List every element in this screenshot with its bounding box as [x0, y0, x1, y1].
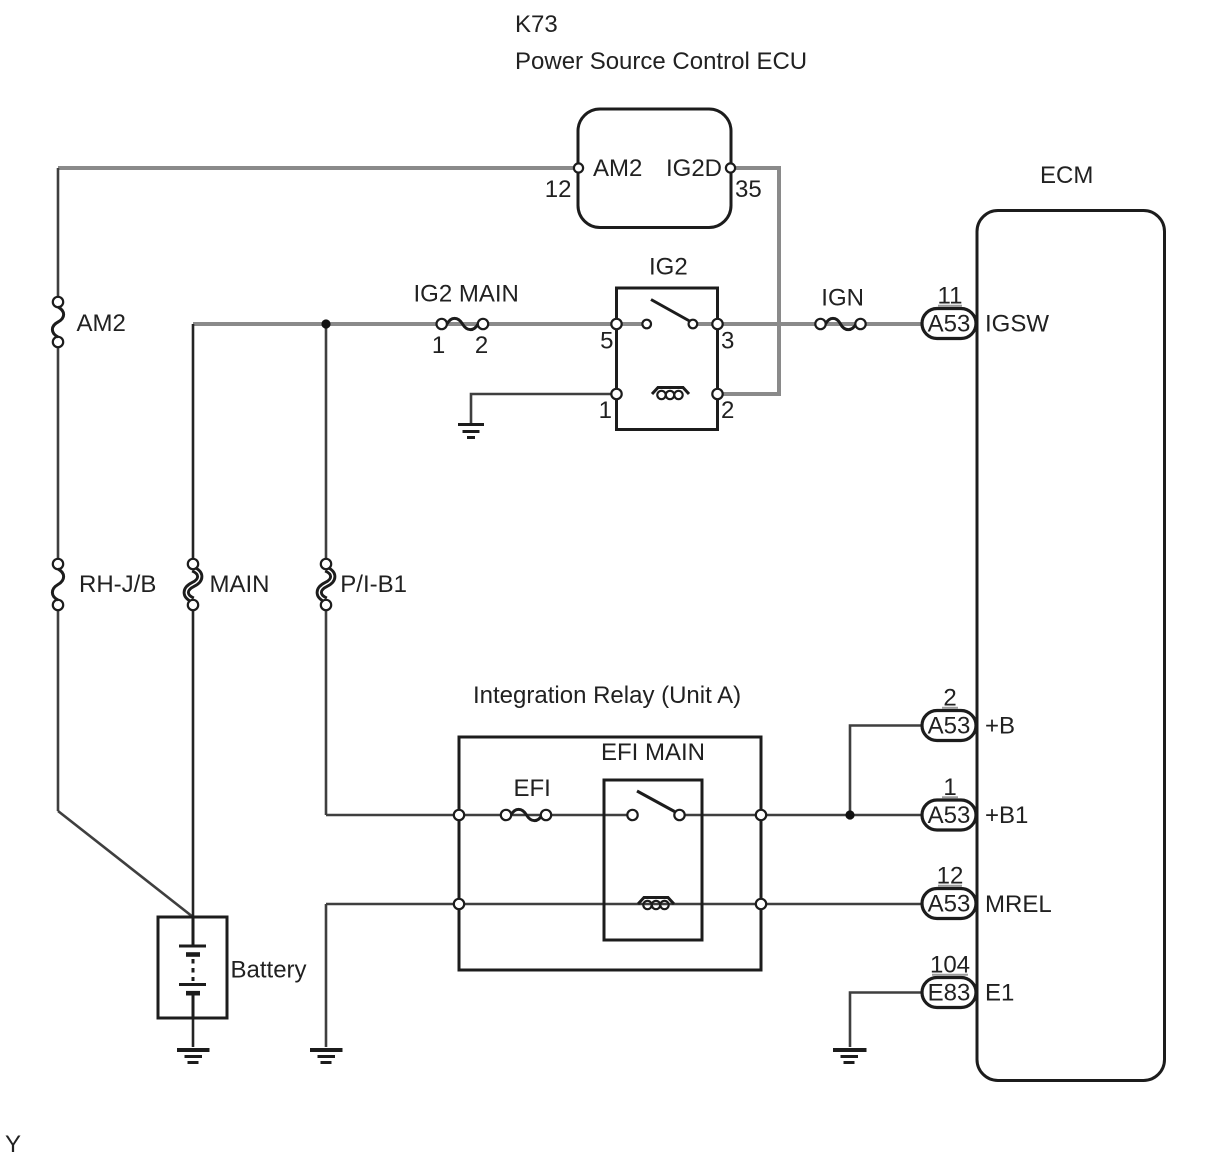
fuse EFI symbol — [511, 809, 542, 820]
svg-text:A53: A53 — [928, 713, 971, 740]
terminal circle integration relay left lower — [454, 899, 464, 909]
svg-text:Y: Y — [5, 1131, 21, 1156]
battery box — [158, 917, 227, 1018]
battery dashed middle — [192, 959, 195, 981]
svg-text:IG2D: IG2D — [666, 155, 722, 182]
svg-text:E1: E1 — [985, 980, 1014, 1007]
switch blade of IG2 relay — [651, 300, 690, 322]
wire P/I-B1 branch vertical upper — [325, 324, 328, 559]
svg-text:E83: E83 — [928, 980, 971, 1007]
svg-text:5: 5 — [600, 328, 613, 355]
fuse AM2 symbol — [53, 297, 63, 307]
relay EFI MAIN inner box — [604, 780, 702, 940]
coil hump of IG2 relay — [652, 388, 689, 395]
fuse IG2 MAIN symbol — [447, 318, 478, 329]
battery plate short thick bottom — [186, 991, 200, 996]
fuse IGN symbol — [826, 318, 857, 329]
wire E1 to ground — [850, 993, 925, 1048]
junction node P/I-B1 tap — [321, 319, 330, 328]
pin 2 circle of IG2 relay — [712, 389, 722, 399]
wire diagonal to battery — [58, 811, 193, 917]
wire MAIN branch vertical upper — [192, 324, 195, 559]
wire K73 IG2D terminal to IG2 relay pin 2 — [717, 168, 779, 394]
wire MREL coil line — [326, 903, 922, 906]
fuse RH-J/B symbol — [53, 559, 63, 569]
svg-text:Integration Relay (Unit A): Integration Relay (Unit A) — [473, 682, 741, 709]
terminal circle integration relay left upper — [454, 810, 464, 820]
battery plate long bottom — [179, 983, 206, 986]
svg-text:IGSW: IGSW — [985, 311, 1049, 338]
ground symbol below IG2 relay coil — [458, 423, 484, 426]
svg-text:P/I-B1: P/I-B1 — [340, 571, 407, 598]
svg-text:AM2: AM2 — [77, 310, 126, 337]
connector E83 pin 104 oval E1 — [922, 978, 976, 1008]
wire from left bus to K73 AM2 terminal — [58, 166, 578, 170]
wire P/I-B1 to integration relay terminal — [326, 814, 459, 817]
pin 3 circle of IG2 relay — [712, 319, 722, 329]
terminal circle K73 pin 12 — [574, 163, 583, 172]
svg-text:EFI: EFI — [514, 775, 551, 802]
wire IG2 relay pin 1 to ground stem — [471, 394, 617, 425]
wire battery negative stem — [192, 1018, 195, 1047]
svg-text:Power Source Control ECU: Power Source Control ECU — [515, 48, 807, 75]
connector A53 pin 11 oval IGSW — [922, 309, 976, 339]
coil hump of EFI MAIN relay — [638, 898, 674, 905]
wire main ignition bus right part — [693, 322, 922, 326]
integration relay box — [459, 737, 761, 970]
svg-text:1: 1 — [599, 397, 612, 424]
svg-text:1: 1 — [432, 332, 445, 359]
svg-text:MAIN: MAIN — [210, 571, 270, 598]
fusible link P/I-B1 symbol — [319, 569, 333, 600]
wire +B riser from junction — [850, 726, 922, 816]
terminal circle integration relay right lower — [756, 899, 766, 909]
svg-text:2: 2 — [721, 397, 734, 424]
battery plate long top — [179, 945, 206, 948]
pin 5 circle of IG2 relay — [611, 319, 621, 329]
relay K1 IG2 box — [617, 288, 718, 430]
battery plate short thick top — [186, 952, 200, 957]
wire main ignition bus left part — [193, 322, 647, 326]
svg-text:12: 12 — [545, 176, 572, 203]
wire EFI MAIN switch output to ECM +B1 — [679, 814, 922, 817]
svg-text:AM2: AM2 — [593, 155, 642, 182]
svg-text:Battery: Battery — [231, 957, 307, 984]
terminal circle K73 pin 35 — [726, 163, 735, 172]
wire MAIN fusible link to battery — [192, 610, 195, 917]
ground symbol below battery — [177, 1048, 210, 1052]
K73 Power Source Control ECU box — [578, 109, 731, 228]
terminal circle integration relay right upper — [756, 810, 766, 820]
svg-text:RH-J/B: RH-J/B — [79, 571, 156, 598]
wire relay ground riser — [325, 904, 328, 1047]
battery internal negative stem — [192, 993, 195, 1018]
svg-text:A53: A53 — [928, 802, 971, 829]
junction node +B tap — [845, 810, 854, 819]
wire RH-J/B fuse down — [57, 610, 60, 811]
switch contact circles of IG2 relay — [642, 320, 651, 329]
svg-text:MREL: MREL — [985, 891, 1052, 918]
connector A53 pin 12 oval MREL — [922, 889, 976, 919]
battery internal positive stem — [192, 917, 195, 945]
wire P/I-B1 fusible link down to EFI line — [325, 610, 328, 815]
svg-text:EFI MAIN: EFI MAIN — [601, 739, 705, 766]
svg-text:3: 3 — [721, 328, 734, 355]
ECM box — [977, 211, 1165, 1081]
wire left bus vertical to AM2 fuse — [57, 168, 60, 297]
svg-text:+B: +B — [985, 713, 1015, 740]
svg-text:ECM: ECM — [1040, 162, 1093, 189]
svg-text:2: 2 — [475, 332, 488, 359]
connector A53 pin 2 oval +B — [922, 711, 976, 741]
coil loops of IG2 relay — [657, 391, 665, 399]
svg-text:IG2 MAIN: IG2 MAIN — [414, 281, 519, 308]
switch blade of EFI MAIN relay — [637, 791, 675, 812]
ground symbol below P/I-B1 riser — [310, 1048, 343, 1052]
switch contact circles of EFI MAIN relay — [627, 810, 637, 820]
svg-text:IG2: IG2 — [649, 254, 688, 281]
svg-text:A53: A53 — [928, 891, 971, 918]
svg-text:K73: K73 — [515, 11, 558, 38]
svg-text:+B1: +B1 — [985, 802, 1028, 829]
pin 1 circle of IG2 relay — [611, 389, 621, 399]
wire EFI feed inside relay — [459, 814, 632, 817]
svg-text:A53: A53 — [928, 311, 971, 338]
svg-text:IGN: IGN — [821, 285, 864, 312]
wire AM2 fuse to RH-J/B fuse — [57, 347, 60, 559]
ground symbol for ECM E1 — [833, 1048, 867, 1052]
coil loops of EFI MAIN relay — [643, 901, 651, 909]
fusible link MAIN symbol — [186, 569, 200, 600]
connector A53 pin 1 oval +B1 — [922, 800, 976, 830]
svg-text:35: 35 — [735, 176, 762, 203]
